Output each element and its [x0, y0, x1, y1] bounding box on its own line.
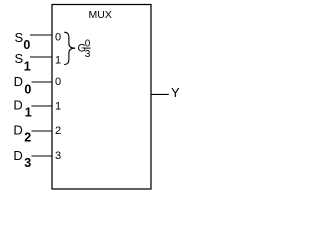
svg-text:0: 0	[55, 32, 61, 44]
svg-text:0: 0	[55, 76, 61, 88]
svg-text:1: 1	[55, 54, 61, 66]
label G 0/3	[78, 39, 91, 61]
wire data D1	[32, 105, 53, 107]
wire select S0	[30, 34, 52, 36]
svg-text:3: 3	[85, 49, 91, 60]
svg-text:MUX: MUX	[89, 9, 112, 21]
wire data D3	[32, 155, 53, 157]
svg-text:D: D	[13, 97, 22, 112]
node D2 label	[13, 122, 31, 144]
brace select group	[64, 32, 75, 64]
svg-text:D: D	[13, 148, 22, 163]
svg-text:1: 1	[25, 106, 32, 120]
node D1 label	[13, 97, 31, 119]
svg-text:3: 3	[55, 150, 61, 162]
node D0 label	[14, 74, 32, 96]
svg-text:1: 1	[55, 101, 61, 113]
wire data D0	[32, 81, 53, 83]
svg-text:S: S	[15, 51, 24, 66]
wire data D2	[32, 130, 53, 132]
svg-text:D: D	[14, 74, 23, 89]
multiplexer U1 body	[52, 5, 151, 190]
svg-text:1: 1	[24, 59, 31, 73]
wire output Y	[151, 93, 169, 95]
svg-text:3: 3	[24, 156, 31, 170]
svg-text:S: S	[15, 30, 24, 45]
svg-text:Y: Y	[171, 85, 180, 100]
svg-text:0: 0	[24, 82, 31, 96]
node S0 label	[15, 30, 31, 52]
svg-text:0: 0	[23, 38, 30, 52]
svg-text:D: D	[13, 122, 22, 137]
svg-text:2: 2	[55, 125, 61, 137]
node S1 label	[15, 51, 31, 73]
wire select S1	[30, 56, 52, 58]
svg-text:2: 2	[24, 131, 31, 145]
node D3 label	[13, 148, 31, 170]
